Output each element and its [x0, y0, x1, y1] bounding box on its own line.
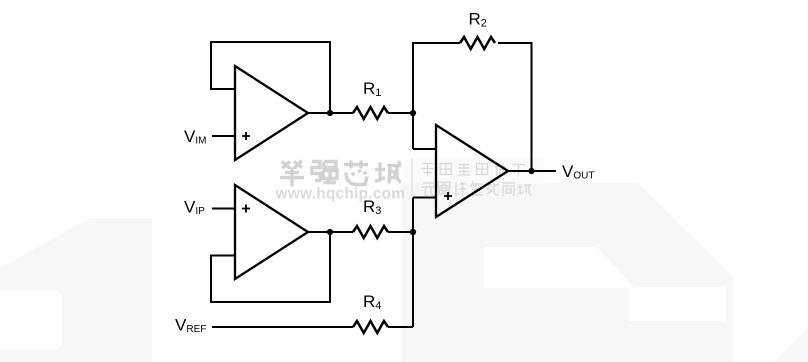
svg-text:R4: R4: [363, 292, 381, 312]
svg-text:R1: R1: [363, 79, 381, 99]
svg-text:VIM: VIM: [184, 127, 206, 147]
svg-text:VOUT: VOUT: [562, 162, 594, 182]
svg-text:www.hqchip.com: www.hqchip.com: [275, 186, 406, 203]
svg-text:VIP: VIP: [184, 198, 205, 218]
svg-text:VREF: VREF: [175, 316, 206, 336]
svg-text:R2: R2: [469, 10, 487, 30]
